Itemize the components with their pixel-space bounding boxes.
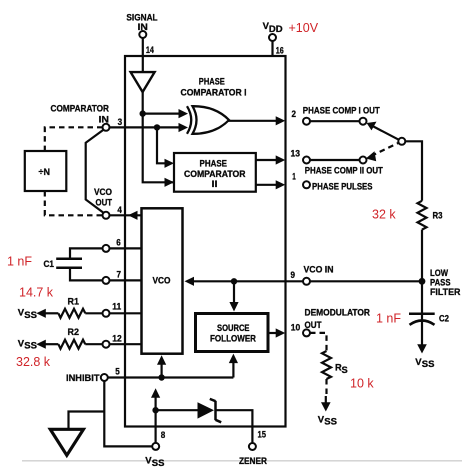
svg-text:DD: DD bbox=[269, 24, 283, 35]
pin 16 label bbox=[276, 45, 284, 56]
wire pin7 into VCO bbox=[110, 279, 142, 281]
wire pin4 to VCO bbox=[110, 214, 142, 216]
wire R3 to LPF node bbox=[421, 230, 423, 281]
arrowhead PCII upper input bbox=[165, 159, 175, 168]
ground symbol bbox=[50, 429, 83, 455]
wire SF output to pin10 bbox=[269, 332, 278, 334]
capacitor C2 bbox=[409, 314, 435, 325]
svg-text:SS: SS bbox=[152, 458, 165, 468]
IC package outline U1 bbox=[125, 56, 286, 427]
wire junction arrow up bbox=[155, 397, 157, 410]
pin 13 label bbox=[291, 149, 301, 160]
pin 6 terminal circle bbox=[103, 245, 110, 252]
dashed wire RS down bbox=[325, 379, 327, 396]
svg-text:C1: C1 bbox=[44, 259, 55, 269]
svg-text:COMPARATOR I: COMPARATOR I bbox=[181, 88, 247, 98]
pin 5 label bbox=[115, 367, 120, 378]
VCO box bbox=[142, 208, 183, 353]
svg-text:5: 5 bbox=[115, 367, 120, 378]
svg-text:VCO: VCO bbox=[94, 187, 112, 197]
arrowhead pin13 at edge bbox=[276, 155, 286, 164]
arrowhead above pin8 junction bbox=[151, 388, 160, 398]
label divide by N bbox=[39, 167, 51, 177]
pin 13 terminal circle bbox=[303, 157, 310, 164]
wire ground branch bbox=[69, 412, 105, 430]
wire C1 to pin7 bbox=[70, 268, 103, 281]
pin 14 label bbox=[146, 45, 155, 56]
wire inhibit down to pin8 bbox=[104, 381, 152, 446]
svg-text:R2: R2 bbox=[68, 327, 80, 337]
resistor R2 bbox=[46, 340, 103, 349]
resistor RS bbox=[322, 351, 331, 379]
label LOW PASS FILTER bbox=[430, 268, 461, 297]
input amplifier A1 bbox=[131, 72, 155, 92]
wire zener cathode to pin15 bbox=[216, 410, 253, 443]
svg-text:IN: IN bbox=[99, 115, 110, 125]
label VSS at R2 bbox=[18, 339, 37, 352]
svg-text:1 nF: 1 nF bbox=[376, 312, 401, 326]
wire amp output down bbox=[143, 92, 174, 182]
dashed wire pin10 to RS bbox=[310, 333, 327, 351]
pin 1 label bbox=[292, 171, 296, 182]
capacitor C1 bbox=[56, 259, 82, 268]
svg-text:DEMODULATOR: DEMODULATOR bbox=[305, 307, 371, 317]
arrowhead pin4 VCO out bbox=[128, 211, 138, 220]
label VSS under C2 bbox=[415, 357, 434, 370]
pin 15 label bbox=[258, 430, 267, 441]
svg-text:3: 3 bbox=[118, 117, 123, 128]
label VCO bbox=[153, 276, 171, 286]
pin 8 label bbox=[161, 430, 166, 441]
wire pin14 to amplifier bbox=[142, 38, 144, 72]
wire feedback pin3 to pin4 bbox=[86, 130, 104, 214]
wire pin3 to XOR lower input bbox=[110, 126, 179, 128]
svg-text:PHASE: PHASE bbox=[200, 159, 228, 169]
label SIGNAL IN bbox=[126, 12, 157, 32]
svg-text:÷N: ÷N bbox=[39, 167, 51, 177]
pin 7 terminal circle bbox=[103, 277, 110, 284]
switch contact circle pin2 bbox=[360, 118, 367, 125]
svg-text:14.7 k: 14.7 k bbox=[19, 286, 54, 300]
svg-text:7: 7 bbox=[117, 270, 122, 281]
svg-text:9: 9 bbox=[291, 270, 296, 281]
red 1 nF annotation right bbox=[376, 312, 401, 326]
svg-text:PHASE: PHASE bbox=[199, 76, 225, 86]
scan artifact line bbox=[22, 460, 462, 462]
label PHASE COMP II OUT bbox=[305, 166, 383, 176]
wire pin2 to switch contact bbox=[310, 120, 360, 122]
arrowhead RS VSS bbox=[321, 402, 331, 411]
svg-text:LOW: LOW bbox=[430, 268, 448, 278]
svg-text:COMPARATOR: COMPARATOR bbox=[51, 104, 110, 114]
pin 11 label bbox=[112, 301, 122, 312]
label PHASE COMPARATOR I bbox=[181, 76, 247, 97]
wire pin9 to LPF node bbox=[310, 280, 422, 282]
svg-text:FOLLOWER: FOLLOWER bbox=[210, 334, 256, 344]
node LPF junction bbox=[419, 278, 426, 285]
arrowhead XOR upper input bbox=[179, 109, 189, 118]
zener diode D1 bbox=[198, 399, 222, 422]
label ZENER bbox=[239, 456, 267, 466]
wire switch to R3 bbox=[405, 141, 422, 201]
pin 15 terminal circle bbox=[249, 443, 256, 450]
svg-text:SS: SS bbox=[422, 359, 435, 370]
wire PCII out to pin1 bbox=[256, 184, 277, 186]
red 10 k annotation bbox=[350, 377, 374, 391]
pin 2 terminal circle bbox=[303, 118, 310, 125]
svg-text:10: 10 bbox=[291, 323, 301, 334]
arrowhead R1 VSS bbox=[36, 309, 46, 318]
pin 14 terminal circle bbox=[139, 31, 146, 38]
red 32.8 k annotation bbox=[16, 355, 51, 369]
pin 2 label bbox=[292, 109, 297, 120]
svg-text:PHASE COMP I OUT: PHASE COMP I OUT bbox=[303, 106, 380, 116]
label VSS under pin8 bbox=[145, 456, 164, 468]
wire pin12 into VCO bbox=[110, 343, 142, 345]
switch common circle bbox=[398, 138, 405, 145]
label PHASE COMP I OUT bbox=[303, 106, 380, 116]
label COMPARATOR IN bbox=[51, 104, 110, 125]
label SOURCE FOLLOWER bbox=[210, 323, 256, 344]
label R2 bbox=[68, 327, 80, 337]
svg-text:32 k: 32 k bbox=[372, 208, 396, 222]
red 1 nF annotation left bbox=[7, 255, 32, 269]
label VSS under RS bbox=[318, 415, 337, 428]
dashed wire divider to pin4 bbox=[45, 191, 103, 215]
wire pin9 into VCO bbox=[194, 280, 303, 282]
label INHIBIT bbox=[66, 373, 100, 383]
node zener junction bbox=[152, 407, 158, 413]
svg-text:OUT: OUT bbox=[305, 320, 322, 330]
svg-text:PASS: PASS bbox=[430, 278, 451, 288]
svg-text:FILTER: FILTER bbox=[430, 287, 461, 297]
svg-text:11: 11 bbox=[112, 301, 122, 312]
svg-text:15: 15 bbox=[258, 430, 267, 441]
label RS bbox=[335, 363, 348, 375]
node amp output junction bbox=[140, 110, 146, 116]
svg-text:SS: SS bbox=[324, 417, 337, 428]
svg-text:II: II bbox=[212, 179, 218, 189]
label R3 bbox=[433, 211, 443, 221]
pin 9 terminal circle bbox=[303, 278, 310, 285]
svg-text:S: S bbox=[342, 365, 348, 375]
svg-text:16: 16 bbox=[276, 45, 284, 56]
wire junction up to VCO bottom bbox=[161, 364, 163, 378]
label DEMODULATOR OUT bbox=[305, 307, 371, 330]
svg-text:10 k: 10 k bbox=[350, 377, 374, 391]
arrowhead into SF bottom bbox=[229, 354, 238, 364]
svg-text:+10V: +10V bbox=[289, 21, 319, 35]
svg-text:VCO: VCO bbox=[153, 276, 171, 286]
svg-text:8: 8 bbox=[161, 430, 166, 441]
arrowhead pin2 at edge bbox=[276, 116, 286, 125]
wire pin3 branch to PCII upper input bbox=[157, 127, 165, 163]
svg-text:1 nF: 1 nF bbox=[7, 255, 32, 269]
label C1 bbox=[44, 259, 55, 269]
pin 6 label bbox=[116, 237, 121, 248]
arrowhead into SF top bbox=[229, 302, 238, 312]
label PHASE PULSES bbox=[312, 182, 373, 192]
switch contact circle pin13 bbox=[360, 157, 367, 164]
dashed wire pin3 to divider bbox=[45, 127, 103, 151]
pin 3 terminal circle bbox=[103, 124, 110, 131]
label PHASE COMPARATOR II bbox=[184, 159, 246, 190]
wire LPF node to C2 bbox=[421, 281, 423, 320]
label VCO IN bbox=[304, 265, 334, 275]
pin 8 terminal circle bbox=[152, 443, 159, 450]
wire pin6 into VCO bbox=[110, 247, 142, 249]
node pin3 branch junction bbox=[154, 124, 160, 130]
pin 1 terminal circle bbox=[303, 181, 310, 188]
label VCO OUT bbox=[94, 187, 112, 207]
svg-text:OUT: OUT bbox=[96, 197, 113, 207]
svg-text:1: 1 bbox=[292, 171, 296, 182]
wire pin6 to C1 bbox=[70, 248, 103, 258]
wire XOR output to pin2 bbox=[229, 120, 278, 122]
svg-text:PHASE COMP II OUT: PHASE COMP II OUT bbox=[305, 166, 383, 176]
arrowhead switch arm pin2 bbox=[367, 122, 377, 131]
arrowhead PCII lower input bbox=[165, 178, 175, 187]
wire C2 to VSS arrow bbox=[421, 321, 423, 346]
pin 10 label bbox=[291, 323, 301, 334]
arrowhead R2 VSS bbox=[36, 340, 46, 349]
red 14.7 k annotation bbox=[19, 286, 54, 300]
pin 12 terminal circle bbox=[103, 341, 110, 348]
source follower box bbox=[196, 314, 269, 352]
red 32 k annotation bbox=[372, 208, 396, 222]
svg-text:C2: C2 bbox=[439, 313, 449, 323]
arrowhead into VCO right edge bbox=[185, 277, 195, 286]
pin 9 label bbox=[291, 270, 296, 281]
pin 12 label bbox=[112, 333, 122, 344]
svg-text:COMPARATOR: COMPARATOR bbox=[184, 169, 246, 179]
svg-text:R1: R1 bbox=[68, 296, 80, 306]
arrowhead pin1 at edge bbox=[276, 180, 286, 189]
pin 16 terminal circle bbox=[269, 34, 276, 41]
wire inhibit line bbox=[108, 376, 234, 378]
wire pin8 up to zener line bbox=[155, 410, 157, 443]
pin 10 terminal circle bbox=[303, 329, 310, 336]
pin 4 label bbox=[117, 205, 122, 216]
label C2 bbox=[439, 313, 449, 323]
wire RS arrow shaft bbox=[325, 396, 327, 403]
pin 11 terminal circle bbox=[103, 310, 110, 317]
pin 7 label bbox=[117, 270, 122, 281]
svg-text:13: 13 bbox=[291, 149, 301, 160]
svg-text:R3: R3 bbox=[433, 211, 443, 221]
XOR gate phase comparator I bbox=[187, 106, 229, 134]
pin 5 terminal circle bbox=[101, 374, 108, 381]
svg-text:6: 6 bbox=[116, 237, 121, 248]
divide by N box bbox=[25, 151, 67, 191]
svg-text:ZENER: ZENER bbox=[239, 456, 267, 466]
svg-text:12: 12 bbox=[112, 333, 122, 344]
arrowhead pin10 at edge bbox=[276, 328, 286, 337]
svg-text:14: 14 bbox=[146, 45, 155, 56]
wire PCII out to pin13 bbox=[256, 159, 277, 161]
arrowhead C2 VSS bbox=[417, 344, 427, 353]
wire to XOR upper input bbox=[143, 112, 179, 114]
svg-text:VCO IN: VCO IN bbox=[304, 265, 334, 275]
label R1 bbox=[68, 296, 80, 306]
node inhibit junction bbox=[158, 374, 164, 380]
wire inhibit to SF bottom bbox=[232, 362, 234, 378]
label VSS at R1 bbox=[18, 308, 37, 321]
arrowhead switch arm pin13 bbox=[366, 151, 376, 161]
svg-text:INHIBIT: INHIBIT bbox=[66, 373, 100, 383]
svg-text:32.8 k: 32.8 k bbox=[16, 355, 51, 369]
pin 4 terminal circle bbox=[103, 212, 110, 219]
+10V red annotation bbox=[289, 21, 319, 35]
svg-text:2: 2 bbox=[292, 109, 297, 120]
wire pin16 to box top bbox=[271, 41, 273, 56]
svg-text:PHASE PULSES: PHASE PULSES bbox=[312, 182, 373, 192]
resistor R1 bbox=[46, 309, 103, 318]
wire pin13 to switch contact bbox=[310, 159, 360, 161]
svg-text:SIGNAL: SIGNAL bbox=[126, 12, 157, 22]
svg-text:SS: SS bbox=[24, 310, 37, 321]
switch wiper solid arm to pin2 bbox=[373, 126, 402, 141]
svg-text:SOURCE: SOURCE bbox=[217, 323, 250, 333]
label VDD bbox=[263, 21, 283, 35]
wire pin11 into VCO bbox=[110, 312, 142, 314]
phase comparator II box U1b bbox=[174, 153, 256, 192]
wire zener anode bbox=[156, 409, 198, 411]
svg-text:SS: SS bbox=[24, 341, 37, 352]
wire branch down to source follower bbox=[233, 281, 235, 303]
resistor R3 bbox=[418, 201, 427, 230]
switch wiper dashed arm to pin13 bbox=[374, 141, 402, 155]
arrowhead into VCO bottom bbox=[157, 355, 166, 365]
arrowhead XOR lower input bbox=[179, 123, 189, 132]
node source follower branch bbox=[231, 278, 237, 284]
pin 3 label bbox=[118, 117, 123, 128]
